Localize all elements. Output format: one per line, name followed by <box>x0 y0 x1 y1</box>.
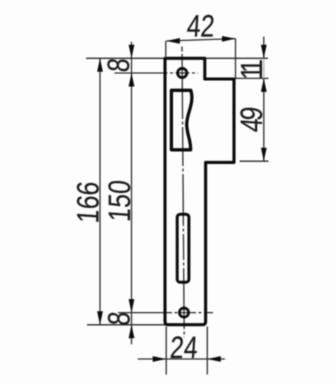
center line (dash-dot) <box>182 47 184 338</box>
top slot (latch opening) <box>171 90 192 150</box>
dimension line 42 <box>166 39 235 41</box>
arrow 42 left <box>166 38 180 44</box>
arrow 42 right <box>222 36 236 42</box>
arrow 166 bottom (down) <box>97 311 103 325</box>
arrow 11 top (down, outside) <box>261 45 267 59</box>
arrow 24 left (outside, pointing right) <box>153 356 167 362</box>
svg-text:166: 166 <box>71 180 105 224</box>
extension line: plate bottom edge, left side <box>87 324 165 326</box>
dimension line 11-49 faint connector <box>263 58 265 78</box>
arrow 49 top / 11 bottom (up) <box>261 78 267 92</box>
arrowheads <box>97 36 267 362</box>
extension line: lip bottom edge, right side <box>240 160 269 162</box>
extension line 24 left <box>165 327 167 375</box>
top hole <box>178 68 187 77</box>
dimension line 166 <box>99 58 101 325</box>
svg-text:150: 150 <box>102 179 136 223</box>
svg-text:24: 24 <box>169 331 199 365</box>
extension line: plate top edge, right side <box>206 57 268 59</box>
arrow 166 top (up) <box>97 58 103 72</box>
svg-text:8: 8 <box>102 57 136 73</box>
arrow 24 right (outside, pointing left) <box>207 356 221 362</box>
bottom slot <box>177 214 189 282</box>
svg-text:49: 49 <box>234 106 268 133</box>
svg-text:42: 42 <box>186 9 216 43</box>
bottom hole <box>179 308 188 317</box>
arrow 150 top / 8 lower (up) <box>129 73 135 87</box>
arrow 8-bottom lower (up, outside) <box>129 325 135 339</box>
svg-text:8: 8 <box>102 310 136 326</box>
extension line: plate top edge, left side <box>86 57 164 59</box>
arrow 8-top upper (down, outside) <box>129 45 135 59</box>
extension line: top hole centerline, left (crosshair) <box>115 72 199 74</box>
extension line: lip top edge, right side <box>234 77 269 79</box>
extension line 42 right <box>235 39 237 78</box>
plate outline <box>165 58 234 324</box>
extension line 24 right <box>206 327 208 375</box>
dimension line 150 with 8 tails <box>131 42 133 344</box>
extension line: bottom hole centerline (crosshair) <box>118 312 213 314</box>
extension line 42 left <box>165 41 167 57</box>
dimension line 24 <box>138 358 225 360</box>
dimension line 11 upper tail <box>263 37 265 59</box>
arrow 150 bottom / 8 upper (down) <box>129 299 135 313</box>
svg-text:1: 1 <box>234 66 268 80</box>
arrow 49 bottom (down) <box>261 148 267 162</box>
dimension line 49 <box>263 78 265 161</box>
